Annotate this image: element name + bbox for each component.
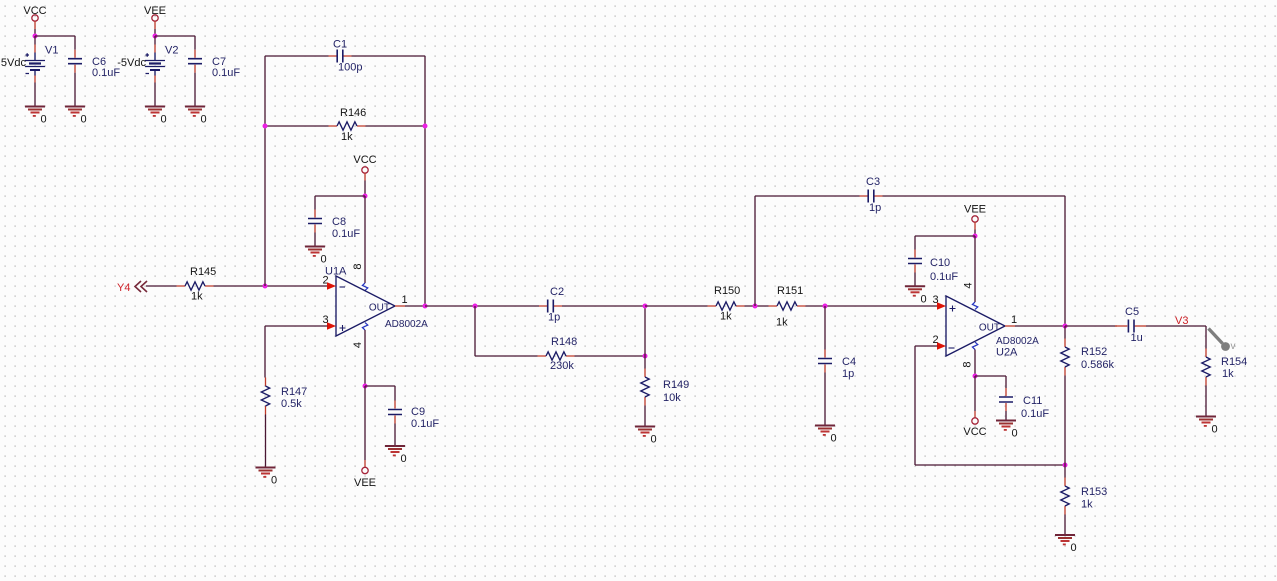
ground 0 (under C6) [65,107,87,126]
junction [973,234,978,239]
wire [424,56,426,306]
capacitor C9 [388,386,439,430]
wire [366,125,426,127]
wire [644,406,646,427]
wire [474,306,476,356]
resistor R151 [769,285,806,329]
svg-text:1p: 1p [842,368,854,380]
wire [824,306,826,350]
svg-text:V2: V2 [165,45,178,57]
svg-text:VCC: VCC [23,5,46,17]
resistor R153 [1061,465,1107,515]
svg-text:1p: 1p [548,312,560,324]
wire [364,386,366,460]
svg-text:1k: 1k [720,311,732,323]
wire [364,196,366,283]
junction [643,304,648,309]
svg-text:C2: C2 [550,286,564,298]
svg-text:5Vdc: 5Vdc [1,57,27,69]
wire [755,195,860,197]
off-page connector Y4 [117,281,147,294]
svg-text:VCC: VCC [963,426,986,438]
voltage probe V [1209,329,1236,353]
svg-text:v: v [1231,341,1236,352]
junction [643,354,648,359]
svg-text:0.1uF: 0.1uF [212,67,240,79]
wire [1005,411,1007,421]
svg-text:230k: 230k [550,360,574,372]
wire [74,73,76,107]
svg-text:R153: R153 [1081,486,1107,498]
wire [364,181,366,197]
wire [155,35,195,37]
power symbol VCC (net VCC, top left) [23,5,46,21]
svg-text:1: 1 [1011,314,1017,326]
op-amp U1A power pin 4 [352,323,368,348]
wire [425,305,539,307]
junction [423,304,428,309]
ground 0 (under R147) [256,468,278,487]
svg-text:C1: C1 [333,39,347,51]
wire [575,355,646,357]
wire [1015,325,1065,327]
voltage source V2 [117,45,178,83]
junction [1063,463,1068,468]
resistor R154 [1202,349,1247,386]
junction [823,304,828,309]
svg-text:1u: 1u [1131,332,1143,344]
pin 2 (U2A -) [932,334,946,350]
svg-text:R148: R148 [551,336,577,348]
svg-text:R146: R146 [340,107,366,119]
power symbol VEE (below U1A) [354,460,376,489]
wire [1065,325,1117,327]
svg-text:Y4: Y4 [117,282,130,294]
svg-text:1k: 1k [191,291,203,303]
capacitor C11 [999,376,1049,420]
junction [263,124,268,129]
wire [914,346,916,465]
svg-text:C3: C3 [866,176,880,188]
ground 0 (under C8) [305,247,327,266]
capacitor C6 [68,36,120,79]
svg-text:OUT: OUT [369,303,390,314]
svg-text:100p: 100p [338,62,362,74]
wire [364,330,366,386]
svg-text:1k: 1k [1081,499,1093,511]
junction [153,34,158,39]
svg-text:8: 8 [962,361,974,367]
op-amp U2A power pin 8 [962,342,978,367]
ground 0 (under C9) [385,446,407,465]
wire [915,345,938,347]
svg-text:C5: C5 [1125,306,1139,318]
svg-text:C10: C10 [930,257,950,269]
svg-text:1k: 1k [1222,368,1234,380]
power symbol VCC (below U2A) [963,411,986,438]
wire [146,285,177,287]
svg-text:VEE: VEE [144,5,166,17]
wire [475,355,538,357]
resistor R145 [177,266,217,303]
wire [1205,326,1207,349]
wire [315,195,365,197]
svg-text:0.1uF: 0.1uF [1021,408,1049,420]
svg-text:R154: R154 [1221,356,1247,368]
wire [974,376,976,411]
ground 0 (under R154) [1196,417,1218,436]
power symbol VCC (above U1A) [353,154,376,173]
capacitor C5 [1115,306,1146,344]
resistor R147 [261,378,307,415]
capacitor C10 [908,236,958,283]
svg-text:VEE: VEE [964,204,986,216]
wire [154,36,156,45]
pin 3 (U1A +) [322,314,336,330]
capacitor C1 [329,39,363,74]
svg-text:4: 4 [963,282,975,288]
wire [314,233,316,247]
wire [915,464,1065,466]
wire [824,373,826,426]
pin 1 (U2A OUT) [1005,314,1017,326]
svg-text:0.5k: 0.5k [281,398,302,410]
svg-text:VEE: VEE [354,477,376,489]
wire [1064,376,1066,466]
wire [264,56,266,286]
wire [974,350,976,377]
voltage source V1 [1,45,59,83]
junction [1063,324,1068,329]
wire [154,29,156,36]
op-amp U2A power pin 4 [963,282,978,309]
svg-text:0.1uF: 0.1uF [411,418,439,430]
wire [265,325,328,327]
svg-text:R147: R147 [281,386,307,398]
svg-text:V1: V1 [45,45,58,57]
wire [214,285,328,287]
wire [264,326,266,378]
svg-text:0.586k: 0.586k [1081,359,1115,371]
power symbol VEE (above U2A) [964,204,986,223]
capacitor C2 [539,286,564,324]
wire [1205,386,1207,417]
svg-text:10k: 10k [663,392,681,404]
pin 2 (U1A -) [322,275,336,290]
svg-text:AD8002A: AD8002A [385,319,428,330]
wire [754,196,756,306]
svg-text:AD8002A: AD8002A [996,336,1039,347]
wire [364,173,366,180]
svg-text:-5Vdc: -5Vdc [117,57,146,69]
capacitor C8 [308,196,360,240]
pin 1 (U1A OUT) [395,294,408,306]
svg-text:R150: R150 [714,285,740,297]
wire [154,83,156,107]
wire [1146,325,1206,327]
wire [34,29,36,36]
resistor R149 [641,369,689,406]
svg-text:0.1uF: 0.1uF [92,67,120,79]
wire [806,305,938,307]
wire [154,21,156,29]
svg-text:C9: C9 [411,406,425,418]
wire [405,305,425,307]
power symbol VEE (net VEE, top left) [144,5,166,21]
wire [644,306,646,369]
wire [35,35,75,37]
wire [975,375,1006,377]
wire [1064,515,1066,536]
svg-text:1k: 1k [776,317,788,329]
wire [974,222,976,229]
wire [914,273,916,287]
pin 3 (U2A +) [932,294,946,310]
junction [973,374,978,379]
svg-text:4: 4 [352,342,364,348]
capacitor C4 [818,350,856,381]
op-amp U1A power pin 8 [352,263,368,290]
wire [974,230,976,237]
wire [365,385,395,387]
svg-text:OUT: OUT [979,323,1000,334]
wire [265,415,267,468]
svg-text:R145: R145 [190,266,216,278]
wire [1064,196,1066,326]
ground 0 (under R149) [635,427,657,446]
svg-text:0.1uF: 0.1uF [930,271,958,283]
ground 0 (under V1) [25,107,47,126]
junction [33,34,38,39]
wire [745,305,769,307]
junction [363,194,368,199]
svg-text:8: 8 [352,263,364,269]
capacitor C7 [188,36,240,79]
svg-text:U2A: U2A [996,347,1018,359]
wire [34,21,36,29]
wire [265,55,329,57]
junction [753,304,758,309]
svg-text:1p: 1p [869,202,881,214]
resistor R150 [708,285,745,323]
wire [883,195,1066,197]
op-amp U1A [325,266,428,337]
wire [394,424,396,446]
resistor R148 [538,336,578,372]
svg-text:R152: R152 [1081,346,1107,358]
junction [363,384,368,389]
svg-text:VCC: VCC [353,154,376,166]
op-amp U2A [946,296,1039,359]
wire [194,73,196,107]
svg-text:1: 1 [401,294,407,306]
resistor R146 [329,107,367,143]
wire [265,125,329,127]
ground 0 (under V2) [145,107,167,126]
svg-text:1k: 1k [341,131,353,143]
ground 0 (under C4) [815,426,837,445]
svg-text:C8: C8 [332,216,346,228]
ground 0 (under R153) [1055,535,1077,554]
ground 0 (under C10) [905,286,927,305]
svg-text:R149: R149 [663,379,689,391]
svg-text:0.1uF: 0.1uF [332,228,360,240]
wire [352,55,426,57]
wire [34,36,36,45]
wire [34,83,36,107]
svg-text:C4: C4 [842,356,856,368]
svg-text:C11: C11 [1023,395,1042,407]
wire [562,305,645,307]
capacitor C3 [860,176,883,214]
junction [263,284,268,289]
resistor R152 [1061,326,1115,376]
svg-text:R151: R151 [777,285,803,297]
svg-text:V3: V3 [1175,315,1188,327]
ground 0 (under C11) [996,421,1018,440]
junction [473,304,478,309]
ground 0 (under C7) [185,107,207,126]
wire [645,305,708,307]
wire [974,236,976,302]
wire [915,235,975,237]
junction [423,124,428,129]
